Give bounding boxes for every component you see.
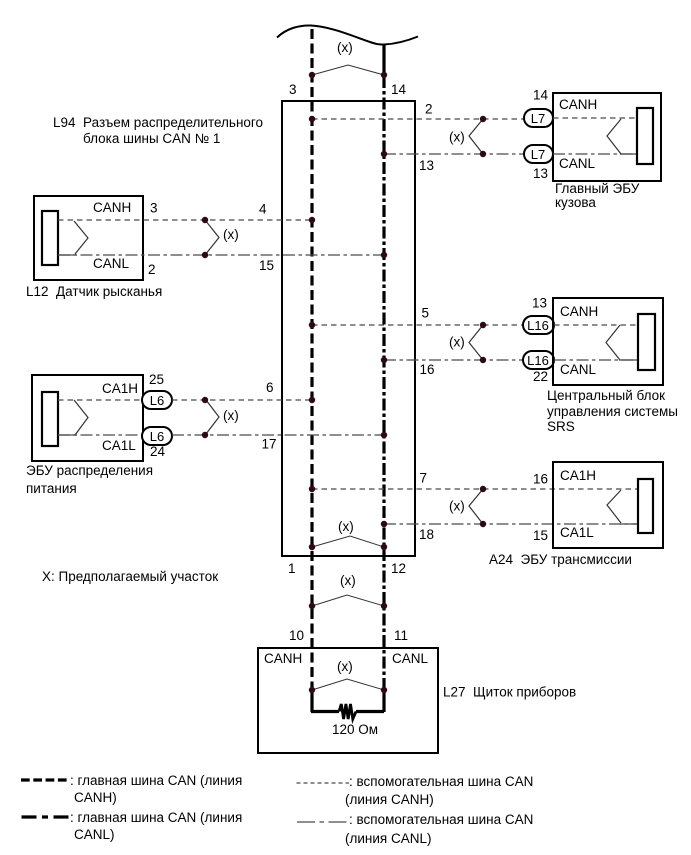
- junction dot T4 left: [309, 687, 315, 693]
- junction dot twist R1 top: [480, 116, 486, 122]
- svg-text:ЭБУ распределения: ЭБУ распределения: [26, 463, 153, 478]
- svg-text:(линия CANL): (линия CANL): [345, 831, 431, 846]
- svg-text:16: 16: [420, 362, 435, 377]
- connector A24 chevron: [607, 490, 621, 523]
- junction dot twist L12 top: [202, 217, 208, 223]
- svg-text:1: 1: [288, 561, 296, 576]
- svg-text:CANL: CANL: [392, 651, 429, 666]
- svg-text:7: 7: [420, 471, 428, 486]
- svg-text:Центральный блок: Центральный блок: [547, 388, 665, 403]
- connector PDU chevron: [74, 400, 88, 435]
- connector L27 box: [258, 648, 438, 753]
- svg-text:17: 17: [262, 437, 277, 452]
- wire CANL in SRS: [554, 359, 638, 361]
- svg-text:L7: L7: [531, 147, 545, 162]
- svg-text:22: 22: [533, 369, 548, 384]
- svg-text:16: 16: [533, 472, 548, 487]
- svg-text:11: 11: [394, 628, 408, 643]
- svg-text:(x): (x): [223, 227, 239, 242]
- connector PDU box (power distribution ECU): [32, 375, 143, 461]
- svg-text:15: 15: [533, 528, 548, 543]
- junction dot bus CANL wire 16: [381, 357, 387, 363]
- svg-text:CANH: CANH: [560, 304, 598, 319]
- wire CANH in body ECU: [553, 117, 637, 119]
- svg-text:питания: питания: [26, 481, 77, 496]
- svg-text:(линия CANH): (линия CANH): [345, 792, 434, 807]
- connector L12 box: [34, 196, 143, 280]
- terminal oval L16 bottom: [523, 351, 554, 369]
- twisted pair marker wires 2/13: [469, 119, 483, 154]
- svg-text:L7: L7: [531, 111, 545, 126]
- connector A24 box: [553, 462, 663, 548]
- twisted pair marker wires 7/18: [469, 489, 483, 524]
- junction dot T3 right: [381, 603, 387, 609]
- connector SRS box: [553, 298, 663, 385]
- twisted pair marker T3 between L94 and L27: [312, 595, 384, 606]
- svg-text:L16: L16: [527, 353, 549, 368]
- junction dot bus CANL wire 15: [381, 252, 387, 258]
- svg-text:блока шины CAN № 1: блока шины CAN № 1: [83, 131, 220, 146]
- twisted pair marker T4 inside L27: [312, 679, 384, 690]
- connector PDU pin housing: [42, 392, 58, 446]
- junction dot twist R1 bottom: [480, 151, 486, 157]
- wire CA1L solid stub to pin (A24): [620, 523, 638, 525]
- twisted pair marker wires 5/16: [469, 325, 483, 360]
- connector A24 pin housing: [638, 479, 653, 533]
- svg-text:3: 3: [289, 82, 297, 97]
- svg-text:Главный ЭБУ: Главный ЭБУ: [555, 181, 640, 196]
- svg-text:2: 2: [425, 102, 433, 117]
- resistor 120 Ohm zigzag: [339, 704, 356, 719]
- connector body ECU box: [553, 93, 661, 181]
- svg-text:(x): (x): [223, 408, 239, 423]
- svg-text:18: 18: [419, 527, 434, 542]
- wire 7 to transmission ECU (thin dashed): [312, 488, 638, 490]
- svg-text:X: Предполагаемый участок: X: Предполагаемый участок: [42, 569, 218, 584]
- legend sample: aux bus CANH thin dashed: [297, 782, 350, 784]
- svg-text:кузова: кузова: [555, 195, 596, 210]
- wire PDU CA1H in-box segment: [58, 399, 142, 401]
- svg-text:14: 14: [391, 82, 407, 97]
- svg-text:3: 3: [150, 201, 158, 216]
- svg-text:13: 13: [419, 158, 434, 173]
- terminal oval L16 top: [523, 316, 554, 334]
- svg-text:(x): (x): [337, 40, 353, 55]
- svg-text:CANL): CANL): [74, 827, 115, 842]
- svg-text:14: 14: [533, 88, 549, 103]
- junction dot twist R2 bottom: [480, 357, 486, 363]
- wire L12 CANL to bus (thin dash-dot): [58, 254, 384, 256]
- connector L94 box outline: [282, 101, 415, 556]
- junction dot bus CANH wire 5: [309, 322, 315, 328]
- junction dot twist R2 top: [480, 322, 486, 328]
- svg-text:CA1H: CA1H: [102, 381, 138, 396]
- svg-text:25: 25: [149, 372, 164, 387]
- wire PDU CA1L solid stub at pin: [58, 434, 77, 436]
- svg-text:15: 15: [259, 258, 274, 273]
- connector SRS pin housing: [638, 314, 655, 370]
- junction dot T2 right: [381, 544, 387, 550]
- terminal oval L7 bottom: [524, 145, 553, 163]
- bus CANH main: thick dashed vertical line x=312: [310, 29, 313, 689]
- bus CANL main: thick dash-dot vertical line x=384: [382, 76, 385, 689]
- wire 2 to main body ECU (thin dashed): [312, 118, 524, 120]
- legend sample: main bus CANL thick dash-dot: [22, 815, 72, 818]
- svg-text:L12 Датчик рысканья: L12 Датчик рысканья: [26, 284, 162, 299]
- svg-text:CA1L: CA1L: [102, 438, 136, 453]
- svg-text:: вспомогательная шина CAN: : вспомогательная шина CAN: [349, 812, 533, 827]
- connector SRS chevron: [606, 325, 620, 360]
- wire CANH in SRS: [554, 324, 638, 326]
- terminal oval L7 top: [524, 109, 553, 127]
- twisted pair marker PDU wires: [206, 400, 219, 434]
- svg-text:(x): (x): [337, 659, 353, 674]
- wire CANH solid drop to terminator: [310, 688, 313, 712]
- svg-text:CANH): CANH): [74, 790, 117, 805]
- svg-text:2: 2: [148, 262, 156, 277]
- wire 18 to transmission ECU (thin dash-dot): [384, 523, 638, 525]
- svg-text:24: 24: [150, 444, 166, 459]
- wire 13 to main body ECU (thin dash-dot): [384, 153, 524, 155]
- junction dot bus CANH wire 6: [309, 397, 315, 403]
- wire 5 to SRS unit (thin dashed): [312, 324, 524, 326]
- wire PDU CA1H to bus (thin dashed): [172, 399, 312, 401]
- twisted pair marker L12 wires: [205, 220, 219, 255]
- connector body ECU pin housing: [637, 108, 653, 164]
- svg-text:(x): (x): [449, 499, 465, 514]
- wire CANL solid stub to pin (SRS): [619, 359, 638, 361]
- svg-text:(x): (x): [340, 573, 356, 588]
- svg-text:SRS: SRS: [547, 419, 575, 434]
- junction dot T4 right: [381, 687, 387, 693]
- twisted pair marker T1 above L94: [312, 65, 384, 75]
- junction dot twist L12 bottom: [202, 252, 208, 258]
- svg-text:CA1L: CA1L: [560, 525, 594, 540]
- junction dot bus CANH wire 7: [309, 486, 315, 492]
- connector body ECU chevron: [607, 119, 621, 154]
- svg-text:10: 10: [289, 628, 304, 643]
- junction dot T1 left: [309, 72, 315, 78]
- junction dot twist PDU top: [202, 397, 208, 403]
- junction dot bus CANH wire 4: [309, 217, 315, 223]
- junction dot T2 left: [309, 544, 315, 550]
- svg-text:CANL: CANL: [93, 256, 130, 271]
- wire CANL in body ECU: [553, 153, 637, 155]
- junction dot T3 left: [309, 603, 315, 609]
- svg-text:4: 4: [259, 202, 267, 217]
- svg-text:CANH: CANH: [264, 651, 302, 666]
- svg-text:CANL: CANL: [559, 156, 596, 171]
- terminal oval L6 bottom: [142, 427, 172, 445]
- svg-text:CANH: CANH: [559, 97, 597, 112]
- junction dot twist R3 bottom: [480, 521, 486, 527]
- connector L12 pin housing: [42, 211, 58, 265]
- resistor 120 Ohm leads: [311, 710, 384, 713]
- svg-text:(x): (x): [338, 519, 354, 534]
- svg-text:: главная шина CAN (линия: : главная шина CAN (линия: [70, 810, 242, 825]
- svg-text:: главная шина CAN (линия: : главная шина CAN (линия: [70, 773, 242, 788]
- junction dot twist R3 top: [480, 486, 486, 492]
- svg-text:120 Ом: 120 Ом: [332, 722, 378, 737]
- svg-text:6: 6: [266, 380, 274, 395]
- svg-text:управления системы: управления системы: [547, 404, 678, 419]
- junction dot twist PDU bottom: [202, 432, 208, 438]
- wire PDU CA1L in-box segment: [58, 434, 142, 436]
- legend sample: aux bus CANL thin dash-dot: [297, 821, 347, 823]
- junction dot bus CANL wire 13: [381, 151, 387, 157]
- svg-text:(x): (x): [449, 335, 465, 350]
- svg-text:L16: L16: [527, 318, 549, 333]
- wire CANL solid stub to pin (body ECU): [620, 153, 637, 155]
- junction dot bus CANL wire 18: [381, 521, 387, 527]
- svg-text:L27 Щиток приборов: L27 Щиток приборов: [443, 685, 576, 700]
- svg-text:A24 ЭБУ трансмиссии: A24 ЭБУ трансмиссии: [489, 552, 632, 567]
- svg-text:CANL: CANL: [560, 362, 597, 377]
- junction dot bus CANH wire 2: [309, 116, 315, 122]
- terminal oval L6 top: [142, 391, 172, 409]
- svg-text:12: 12: [391, 561, 406, 576]
- wire PDU CA1L to bus (thin dash-dot): [172, 434, 384, 436]
- svg-text:L94 Разъем распределительного: L94 Разъем распределительного: [53, 115, 263, 130]
- svg-text:13: 13: [533, 166, 548, 181]
- svg-text:L6: L6: [150, 393, 164, 408]
- bus CANL main: solid stub below wavy: [382, 45, 385, 76]
- junction dot T1 right: [381, 72, 387, 78]
- svg-text:: вспомогательная шина CAN: : вспомогательная шина CAN: [349, 774, 533, 789]
- svg-text:5: 5: [422, 306, 430, 321]
- wire CANL solid drop to terminator: [382, 688, 385, 712]
- svg-text:13: 13: [532, 296, 547, 311]
- wire 16 to SRS unit (thin dash-dot): [384, 359, 524, 361]
- svg-text:(x): (x): [449, 130, 465, 145]
- wire L12 CANH to bus (thin dashed): [58, 219, 312, 221]
- wire break wavy line at top: [277, 25, 418, 44]
- connector L12 chevron: [74, 221, 88, 254]
- svg-text:CANH: CANH: [93, 200, 131, 215]
- wire L12 CANL solid stub at pin: [58, 254, 77, 256]
- twisted pair marker T2 inside L94 bottom: [312, 536, 384, 547]
- legend sample: main bus CANH thick dashed: [21, 778, 69, 781]
- svg-text:CA1H: CA1H: [560, 468, 596, 483]
- svg-text:L6: L6: [150, 429, 164, 444]
- junction dot bus CANL wire 17: [381, 432, 387, 438]
